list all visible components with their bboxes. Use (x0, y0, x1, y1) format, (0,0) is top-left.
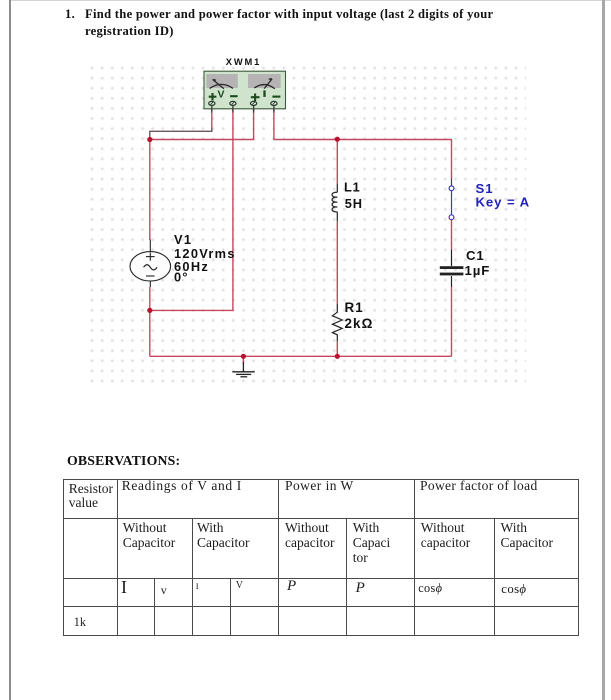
svg-text:2kΩ: 2kΩ (345, 316, 374, 331)
svg-text:Key = A: Key = A (476, 194, 531, 209)
svg-text:L1: L1 (344, 179, 361, 194)
svg-text:0°: 0° (174, 269, 189, 284)
svg-text:XWM1: XWM1 (226, 57, 261, 67)
svg-text:C1: C1 (466, 248, 485, 263)
svg-text:V: V (218, 89, 225, 101)
svg-text:R1: R1 (345, 300, 364, 315)
svg-text:V1: V1 (174, 232, 192, 247)
svg-text:5H: 5H (345, 196, 363, 211)
svg-text:1µF: 1µF (465, 263, 491, 278)
